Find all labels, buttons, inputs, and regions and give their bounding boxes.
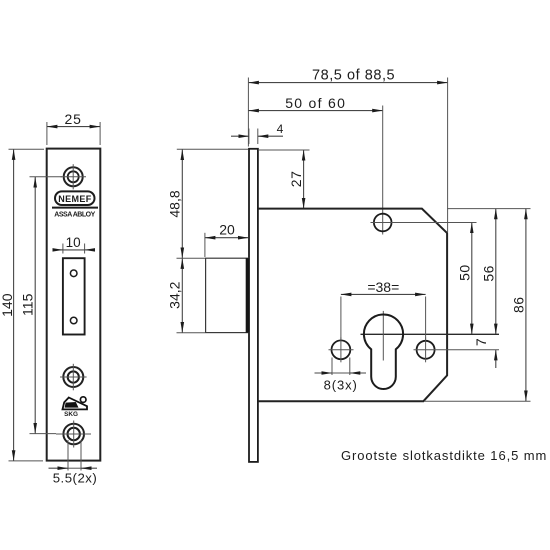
svg-text:=38=: =38=: [367, 279, 399, 295]
svg-text:NEMEF: NEMEF: [58, 194, 92, 204]
NEMEF logo: [55, 191, 95, 205]
dimension 38 extension lines: [340, 297, 342, 341]
svg-text:115: 115: [19, 293, 35, 316]
svg-text:48,8: 48,8: [167, 190, 183, 217]
svg-text:7: 7: [473, 338, 489, 346]
dimension 86 line: [525, 209, 527, 401]
deadbolt outline: [206, 258, 249, 332]
svg-text:50 of 60: 50 of 60: [285, 95, 346, 111]
dimension 34,2 extension lines: [177, 257, 206, 259]
svg-text:Grootste slotkastdikte 16,5 mm: Grootste slotkastdikte 16,5 mm: [341, 448, 547, 463]
left fixing hole: [329, 337, 354, 362]
bottom screw hole: [56, 421, 91, 448]
svg-text:10: 10: [66, 235, 81, 250]
case bottom extension line to right: [424, 400, 531, 402]
deadbolt face thick bar: [246, 258, 250, 332]
case top extension line to right: [447, 208, 530, 210]
ASSA ABLOY logo: [52, 208, 98, 219]
dimension 5.5(2x) line with outside arrows: [49, 467, 69, 469]
svg-text:25: 25: [65, 111, 82, 127]
cylinder fixing hole: [371, 214, 396, 232]
dimension 34,2 line: [181, 258, 183, 332]
svg-text:ASSA ABLOY: ASSA ABLOY: [54, 212, 95, 219]
dimension 20 line: [205, 237, 248, 239]
dimension 38 line: [341, 293, 426, 295]
cutout hole lower: [70, 317, 77, 324]
dimension 8(3x) extension lines: [331, 358, 333, 376]
lock case outline: [258, 209, 447, 402]
cylinder vertical centreline: [382, 311, 384, 361]
dimension 115 line: [34, 177, 36, 433]
dimension 78,5 of 88,5 line: [248, 82, 447, 84]
dimension 140 line: [13, 149, 15, 460]
right fixing hole: [414, 337, 454, 362]
svg-text:34,2: 34,2: [167, 281, 183, 308]
dimension 8(3x) arrows: [315, 372, 333, 374]
dimension 27 line: [303, 150, 305, 208]
svg-text:5.5(2x): 5.5(2x): [53, 470, 98, 485]
faceplate outline: [47, 149, 101, 461]
svg-text:27: 27: [288, 171, 304, 188]
dimension 115 extension lines: [30, 176, 63, 178]
dimension 5.5(2x) extension lines: [67, 440, 69, 471]
dimension 4 arrows: [231, 135, 249, 137]
dimension 50 of 60 line: [248, 110, 382, 112]
dimension 25 extension lines: [46, 122, 48, 145]
dimension 27 extension line: [259, 149, 310, 151]
dimension 56 line: [495, 209, 497, 334]
right extension line (case back edge): [447, 78, 449, 233]
svg-text:140: 140: [0, 293, 15, 317]
dimension 7 lower arrow line: [495, 350, 497, 368]
extension line to cylinder hole: [382, 106, 384, 235]
svg-text:56: 56: [480, 265, 496, 282]
faceplate cutout: [63, 258, 85, 334]
dimension 10 line with outside arrows: [54, 249, 63, 251]
faceplate side bar: [249, 149, 258, 462]
svg-text:78,5 of 88,5: 78,5 of 88,5: [312, 68, 395, 84]
svg-text:20: 20: [219, 222, 235, 238]
svg-text:4: 4: [277, 122, 284, 136]
cutout hole upper: [70, 270, 77, 277]
dimension 48,8 line: [181, 150, 183, 259]
dimension 20 extension line: [204, 233, 206, 257]
dimension 50 line: [471, 223, 473, 334]
svg-text:SKG: SKG: [64, 411, 78, 418]
middle screw hole: [60, 364, 87, 391]
dimension 4 extension lines: [248, 129, 250, 145]
svg-text:50: 50: [456, 264, 472, 281]
SKG quality mark: [63, 397, 88, 418]
top screw hole: [61, 164, 87, 189]
euro cylinder profile: [364, 314, 403, 389]
left extension line (faceplate front): [247, 78, 249, 147]
dimension 140 extension lines: [9, 148, 45, 150]
dimension 25 line: [47, 126, 100, 128]
svg-text:8(3x): 8(3x): [324, 378, 358, 393]
svg-text:86: 86: [511, 296, 527, 313]
holes centreline extension to right: [454, 349, 500, 351]
cylinder centreline extension: [361, 333, 500, 335]
dimension 10 extension ticks: [62, 244, 64, 254]
hole centre extension to right: [392, 222, 477, 224]
dimension 48,8 extension line top: [177, 148, 248, 150]
